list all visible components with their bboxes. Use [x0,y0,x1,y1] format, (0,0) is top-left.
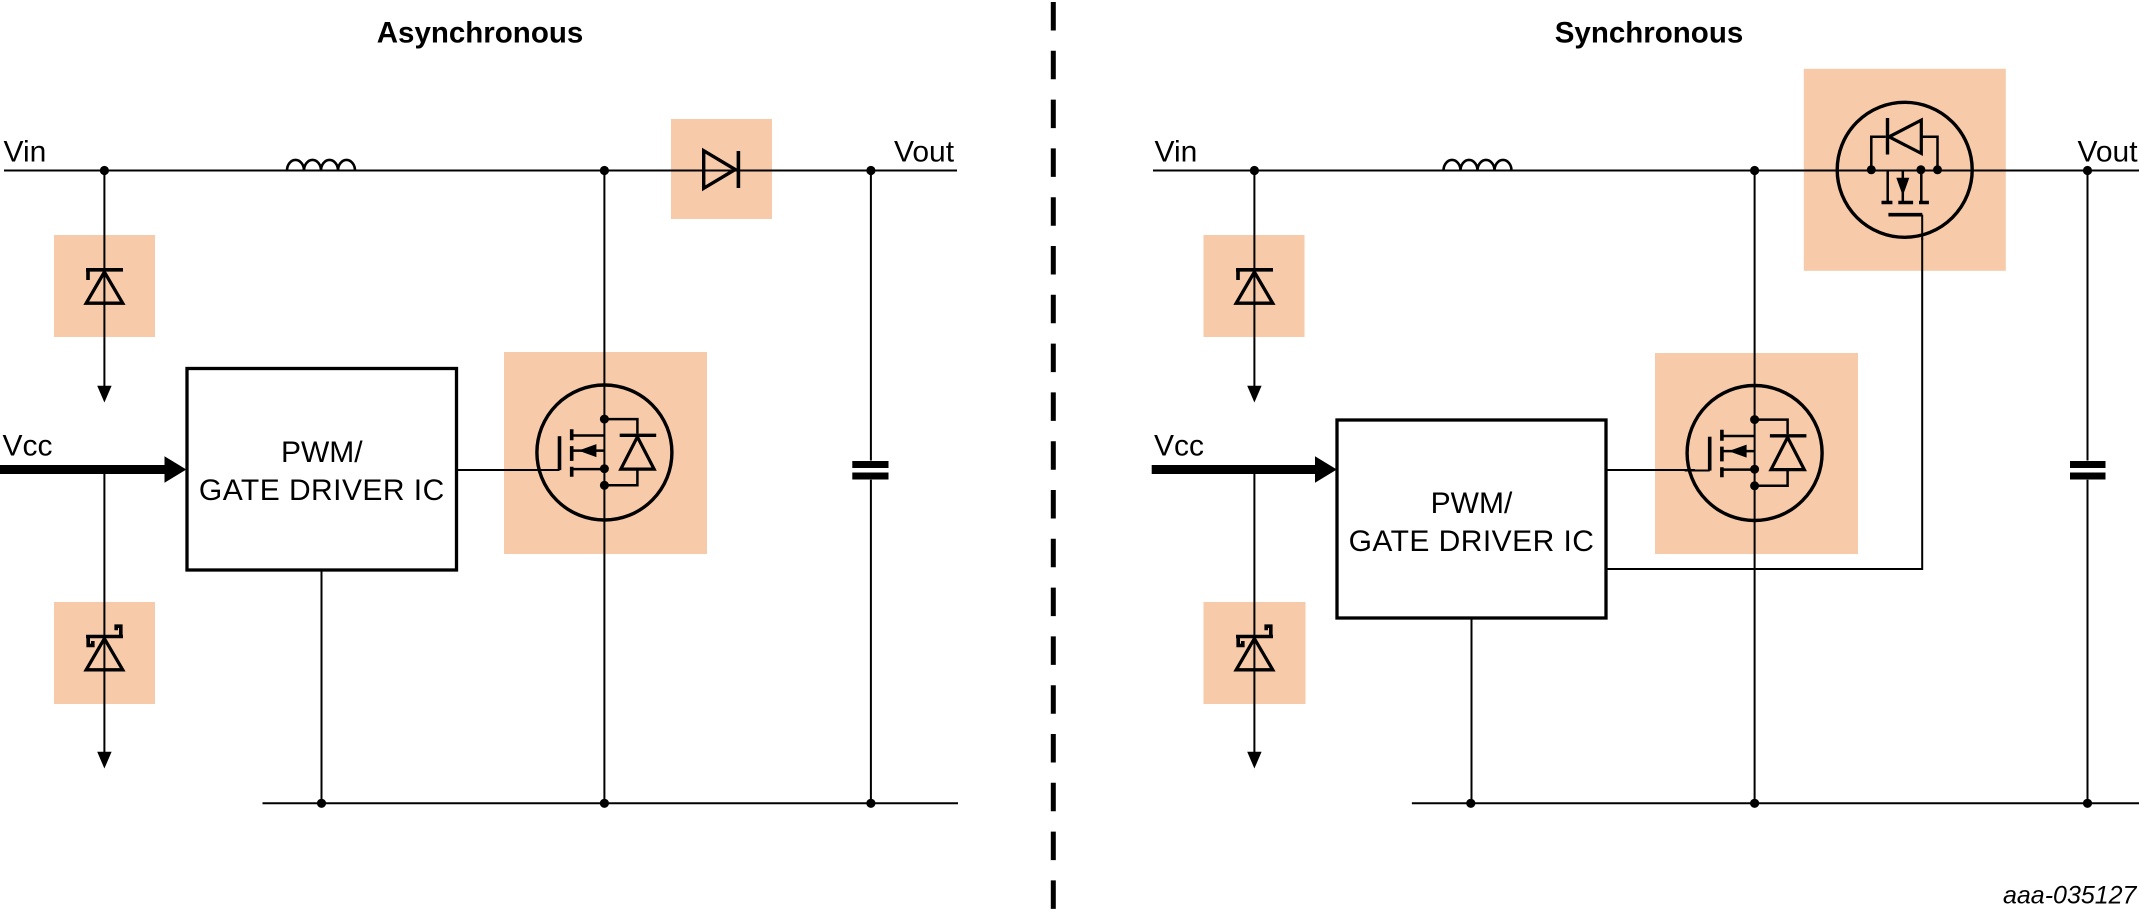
MOSFET Q2 (low-side switch) [1685,386,1823,521]
node: ground capacitor junction [866,799,875,808]
highlight box around TVS D2 [54,602,155,704]
inductor L2 [1444,160,1512,171]
wire: bottom ground rail [263,802,959,804]
node: Vout junction right [2083,166,2092,175]
wire: top rail right [1153,170,2139,172]
zener diode D4 [1236,270,1273,303]
wire: PWM IC ground lead [321,570,323,803]
svg-text:Vin: Vin [1155,136,1198,169]
wire: capacitor column lower right [2087,480,2089,804]
capacitor C2 [2070,461,2106,468]
node: ground switch junction [600,799,609,808]
highlight box around MOSFET Q2 (low side) [1655,353,1858,554]
inductor L1 [287,160,355,171]
arrow below D2 [97,752,111,769]
node: ground IC junction [317,799,326,808]
wire: zener column from Vin node [103,171,105,387]
svg-text:Vout: Vout [894,136,955,169]
wire: switch-node column through MOSFET Q1 [603,171,605,804]
wire: output capacitor column lower [870,480,872,804]
svg-text:Vcc: Vcc [1154,430,1204,463]
arrow to Vcc from D1 [97,386,111,403]
Vcc input thick arrow right [1152,465,1316,474]
node: ground capacitor junction right [2083,799,2092,808]
PWM / gate driver IC box U1 [187,369,457,571]
node: ground IC junction right [1466,799,1475,808]
MOSFET Q3 (high-side synchronous rectifier) [1837,102,1972,240]
arrow below D5 [1247,752,1261,769]
arrow to Vcc from D4 [1247,386,1261,403]
wire: bottom ground rail right [1412,802,2139,804]
PWM / gate driver IC box U2 [1337,420,1606,618]
diode D3 (boost rectifier) [704,151,739,189]
svg-text:Asynchronous: Asynchronous [377,17,584,50]
wire: capacitor column upper right [2087,171,2089,461]
svg-text:PWM/: PWM/ [1431,487,1513,520]
node: switch junction [600,166,609,175]
node: Vin junction right [1250,166,1259,175]
zener diode D1 [86,270,123,303]
wire: PWM output to gate of Q1 [457,469,546,471]
wire: switch column through MOSFET Q2 [1754,171,1756,804]
wire: top rail Vin to Vout [4,170,957,172]
highlight box around zener D4 [1204,235,1305,337]
node: Vout junction [866,166,875,175]
divider dashed line [1051,2,1056,912]
wire: output capacitor column upper [870,171,872,461]
highlight box around diode D3 [671,119,772,219]
svg-text:Vcc: Vcc [3,430,53,463]
svg-text:aaa-035127: aaa-035127 [2003,882,2138,910]
wire: Vcc column right [1253,474,1255,754]
node: switch junction right [1750,166,1759,175]
highlight box around MOSFET Q3 (high side) [1804,69,2006,271]
TVS diode D5 [1236,626,1273,670]
wire: Vcc column to TVS [103,474,105,754]
wire: PWM output to gate of Q2 [1606,469,1695,471]
wire: PWM IC ground lead right [1471,618,1473,803]
svg-text:Vin: Vin [4,136,47,169]
highlight box around MOSFET Q1 [504,352,707,554]
wire: PWM output to gate of Q3 [1606,238,1922,569]
svg-text:Synchronous: Synchronous [1555,17,1744,50]
node: Vin junction [100,166,109,175]
svg-text:PWM/: PWM/ [281,436,363,469]
highlight box around zener D1 [54,235,155,337]
TVS diode D2 [86,626,123,670]
capacitor C1 [852,461,888,468]
svg-text:GATE DRIVER IC: GATE DRIVER IC [1349,525,1595,558]
MOSFET Q1 (low-side switch) [534,385,672,520]
wire: zener column right [1253,171,1255,387]
highlight box around TVS D5 [1204,602,1306,704]
svg-text:GATE DRIVER IC: GATE DRIVER IC [199,474,445,507]
svg-text:Vout: Vout [2078,136,2139,169]
Vcc input thick arrow [0,465,165,474]
node: ground switch junction right [1750,799,1759,808]
